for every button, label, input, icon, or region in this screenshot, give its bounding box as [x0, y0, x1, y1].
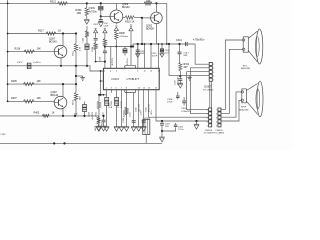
svg-text:4.7K: 4.7K: [80, 46, 82, 51]
node jog x133: [132, 45, 134, 47]
transistor Q302: [151, 12, 163, 24]
wire IC pin up x151: [150, 44, 152, 68]
resistor R301 in rail: [144, 2, 152, 5]
wire pin1 stub: [104, 62, 106, 69]
resistor R408 down: [98, 116, 100, 117]
node x100.5 y71: [100, 70, 102, 72]
wire line y84.1: [8, 83, 76, 85]
svg-text:2: 2: [104, 71, 105, 73]
node x196.5 y121: [195, 120, 197, 122]
net arrow R308 chain: [115, 23, 117, 25]
svg-text:11: 11: [144, 71, 146, 73]
node x99 y94.8: [98, 94, 100, 96]
wire pin7 chain: [121, 93, 123, 128]
node emitter line Q403: [62, 115, 64, 117]
svg-text:C301: C301: [118, 103, 120, 108]
node bus x169: [168, 43, 170, 45]
svg-text:4u7/50v: 4u7/50v: [89, 11, 98, 13]
wire CN307-CN303 link B: [210, 82, 212, 108]
svg-text:F306: F306: [123, 118, 125, 122]
svg-text:B(4Ω,5W): B(4Ω,5W): [239, 110, 248, 112]
resistor R306: [86, 3, 88, 7]
svg-text:2: 2: [216, 113, 217, 115]
ground below R408: [96, 125, 101, 127]
wire bottom line y143.4: [0, 142, 162, 144]
svg-text:1OO: 1OO: [103, 111, 105, 116]
node pin1 jog: [104, 61, 106, 63]
svg-text:8: 8: [126, 88, 127, 90]
svg-text:4u7/5Ov: 4u7/5Ov: [123, 110, 125, 117]
capacitor C314 series: [184, 42, 186, 46]
svg-text:BD908: BD908: [146, 28, 154, 31]
svg-text:R402: R402: [34, 112, 40, 115]
svg-text:SP-R: SP-R: [241, 107, 247, 109]
svg-text:C3O9: C3O9: [89, 7, 96, 10]
node rail y65.8: [7, 65, 9, 67]
node bus x144.5: [144, 43, 146, 45]
node emitter line x87: [86, 65, 88, 67]
capacitor C307: [27, 63, 31, 69]
resistor F306 chain: [126, 93, 128, 128]
svg-text:C318: C318: [167, 99, 173, 101]
node base junction Q308: [100, 15, 102, 17]
speaker SP-R: [242, 89, 247, 103]
node rail-R306 junction: [86, 2, 88, 4]
svg-text:4: 4: [216, 121, 217, 123]
svg-text:12: 12: [143, 88, 145, 90]
capacitor C301: [116, 93, 118, 128]
capacitor C322: [174, 124, 178, 126]
resistor R410: [74, 93, 77, 101]
wire SP-R minus: [221, 100, 241, 121]
svg-text:1OOP: 1OOP: [152, 55, 158, 57]
node x180.3 y76: [179, 75, 181, 77]
wire stub to pin4 CN307: [169, 75, 209, 77]
svg-text:1: 1: [207, 109, 208, 111]
svg-text:TO CN302: TO CN302: [203, 90, 214, 92]
wire bus y44: [133, 43, 195, 45]
wire jog to IC pin1: [96, 61, 105, 63]
svg-text:C3Z1: C3Z1: [165, 124, 171, 126]
svg-text:UTC8L377: UTC8L377: [127, 77, 140, 81]
svg-text:4u7/5Ov: 4u7/5Ov: [127, 58, 129, 65]
node top-left rail junction: [7, 3, 9, 5]
net arrow col A: [94, 29, 98, 32]
svg-text:4.7Bu/9Ov: 4.7Bu/9Ov: [193, 39, 205, 42]
capacitor C310 to ground: [100, 16, 102, 19]
svg-text:1OO: 1OO: [165, 52, 169, 54]
ground bars near Q307: [81, 77, 85, 79]
IC bottom pin stubs: [106, 90, 108, 93]
wire top supply rail: [0, 2, 167, 4]
resistor R407: [23, 100, 34, 103]
svg-text:10R: 10R: [146, 0, 151, 3]
net arrow col B: [103, 29, 107, 32]
svg-text:L203: L203: [1, 134, 7, 136]
svg-text:C3O5: C3O5: [93, 24, 98, 26]
capacitor C306 chain: [86, 50, 88, 66]
svg-text:1: 1: [213, 64, 214, 66]
svg-text:BD140: BD140: [51, 94, 59, 97]
node bus x151: [150, 43, 152, 45]
svg-text:9: 9: [137, 71, 138, 73]
capacitor C321: [161, 121, 163, 123]
svg-text:1OO: 1OO: [165, 126, 170, 128]
svg-text:4u7/50V: 4u7/50V: [92, 111, 94, 119]
svg-text:R310 1K: R310 1K: [125, 20, 135, 23]
svg-text:47Ou: 47Ou: [151, 110, 153, 115]
capacitor C311 to ground: [137, 44, 139, 50]
resistor R319: [179, 63, 182, 72]
wire R319 to dot: [179, 71, 181, 76]
svg-text:16: 16: [155, 88, 157, 90]
wire SP-L minus: [221, 49, 242, 113]
component HP301 box: [143, 120, 150, 135]
resistor R310: [123, 17, 125, 19]
svg-text:5: 5: [116, 88, 117, 90]
node bus x167: [166, 43, 168, 45]
node x162 y121: [161, 120, 163, 122]
node collector Q307: [62, 32, 64, 34]
wire CN307 pin3 feed: [187, 71, 210, 73]
node collector Q403: [62, 83, 64, 85]
capacitor C303 chain: [143, 93, 145, 128]
wire pin14 L-route: [149, 93, 209, 118]
svg-text:10R: 10R: [77, 12, 82, 15]
svg-text:470u/16V: 470u/16V: [178, 76, 180, 85]
node R310-base net: [141, 17, 143, 19]
wire x179.5 down: [179, 44, 181, 52]
node bus x142: [141, 43, 143, 45]
wire IC pin up x158.4: [157, 44, 159, 68]
svg-text:C3O7: C3O7: [140, 110, 142, 115]
wire left rail vertical: [7, 0, 9, 101]
svg-text:C303: C303: [145, 107, 147, 112]
resistor R317: [46, 32, 56, 35]
speaker SP-L: [243, 37, 248, 52]
node rail-Q302 collector: [155, 2, 157, 4]
node R311 top: [75, 32, 77, 34]
resistor R322: [98, 95, 100, 101]
svg-text:2: 2: [213, 68, 214, 70]
capacitor col B lower: [104, 48, 106, 51]
capacitor below dot: [179, 76, 181, 79]
svg-text:TO CN8O5: TO CN8O5: [214, 133, 225, 135]
resistor R308: [115, 30, 117, 33]
node emitter line Q307: [60, 65, 62, 67]
svg-text:SP-L: SP-L: [243, 65, 249, 67]
wire SP-L plus: [221, 40, 242, 110]
resistor R311: [74, 44, 77, 52]
node col B segment: [104, 45, 106, 47]
node bus x179: [178, 43, 180, 45]
svg-text:CN307: CN307: [204, 87, 212, 89]
ground arrow bottom: [159, 136, 164, 138]
IC U301 body: [103, 68, 159, 89]
wire x131 arrow to segment: [130, 31, 132, 47]
svg-text:BD140: BD140: [49, 41, 57, 44]
svg-text:3: 3: [216, 117, 217, 119]
svg-text:1OuF: 1OuF: [167, 102, 173, 104]
svg-text:4R7: 4R7: [184, 67, 189, 69]
net arrow x131: [129, 27, 133, 30]
svg-text:BD140: BD140: [122, 6, 130, 9]
node bus x137.7: [137, 43, 139, 45]
svg-text:13: 13: [150, 71, 152, 73]
resistor R321: [58, 2, 68, 5]
svg-text:C3O7: C3O7: [17, 62, 23, 64]
node x162 y131: [161, 130, 163, 132]
wire box to bottom line: [145, 135, 147, 144]
wire x169 down: [168, 44, 170, 76]
node x100.5 y94.8: [99, 94, 101, 96]
node rail y33.5: [7, 33, 9, 35]
capacitor C302 chain: [133, 93, 135, 128]
svg-text:TO CN8O3: TO CN8O3: [204, 133, 215, 135]
svg-text:R319: R319: [184, 64, 190, 66]
svg-text:R316: R316: [15, 47, 21, 50]
svg-text:CN3O3: CN3O3: [205, 130, 213, 132]
node x100.5 y81: [100, 80, 102, 82]
svg-text:C322: C322: [178, 127, 184, 129]
svg-text:1: 1: [216, 109, 217, 111]
wire CN307-CN303 link A: [209, 82, 211, 108]
svg-text:R405: R405: [11, 80, 17, 83]
svg-text:56P: 56P: [184, 55, 188, 57]
wire emitter line y65.8: [8, 66, 104, 71]
wire bus jog y46.5: [105, 46, 133, 48]
svg-text:C3O3: C3O3: [103, 26, 108, 28]
wire mid rail x76: [75, 34, 77, 44]
wire line y51.6 base Q307: [8, 51, 55, 53]
wire line y33.5: [8, 33, 76, 35]
svg-text:R317: R317: [38, 29, 44, 32]
svg-text:1: 1: [106, 88, 107, 90]
svg-text:14: 14: [148, 88, 150, 90]
svg-text:10K: 10K: [37, 47, 42, 50]
capacitor C316 box to ground: [161, 44, 163, 49]
connector CN403: [218, 108, 221, 111]
svg-text:3: 3: [207, 117, 208, 119]
wire IC pin up x144.5: [144, 44, 146, 68]
wire Q307 emitter: [60, 58, 62, 66]
capacitor C312 below segment: [124, 47, 126, 49]
svg-text:4.7Kohm: 4.7Kohm: [119, 36, 128, 38]
svg-text:4u7/5OV: 4u7/5OV: [112, 57, 114, 65]
node emitter line x84.5: [83, 115, 85, 117]
connector CN303: [209, 108, 212, 111]
wire under-IC link: [98, 94, 107, 96]
wire Q302 collector: [155, 3, 157, 12]
connector CN307: [209, 62, 212, 65]
svg-text:2: 2: [207, 113, 208, 115]
capacitor C406: [84, 112, 86, 116]
node bottom x54.2: [53, 142, 55, 144]
svg-text:C314: C314: [176, 39, 182, 42]
wire bus to CN307 pin1: [195, 44, 209, 64]
svg-text:1K: 1K: [52, 112, 55, 115]
IC top tab: [125, 65, 136, 68]
wire line y101.3 base Q403: [8, 100, 55, 102]
wire collector Q308 to rail: [115, 3, 117, 10]
resistor R405: [23, 82, 34, 85]
svg-text:C3O4: C3O4: [99, 57, 101, 62]
svg-text:4u7/50V: 4u7/50V: [111, 100, 113, 108]
svg-text:15: 15: [158, 71, 160, 73]
node rail-C309 junction: [100, 2, 102, 4]
node x103.4 y94.8: [103, 94, 105, 96]
resistor R402: [42, 114, 49, 117]
svg-text:10K: 10K: [37, 97, 42, 100]
node emitter line x75: [74, 115, 76, 117]
IC bottom tab: [125, 90, 136, 93]
node bus x162: [161, 43, 163, 45]
svg-text:3: 3: [213, 72, 214, 74]
node rail y101.3: [7, 100, 9, 102]
svg-text:C302: C302: [135, 107, 137, 112]
node R308 segment: [115, 46, 117, 48]
capacitor C317: [178, 51, 182, 53]
wire base Q308: [101, 15, 110, 17]
svg-text:IC3O1: IC3O1: [112, 77, 120, 81]
svg-text:4: 4: [207, 121, 208, 123]
svg-text:R308: R308: [119, 33, 125, 35]
svg-text:4: 4: [213, 76, 214, 78]
capacitor C318: [177, 92, 179, 96]
svg-text:B(4Ω,5W): B(4Ω,5W): [241, 68, 250, 70]
svg-text:C304: C304: [108, 103, 110, 108]
node bottom x64.5: [63, 142, 65, 144]
capacitor C304: [106, 93, 108, 128]
svg-text:6: 6: [116, 71, 117, 73]
resistor col B chain: [104, 33, 106, 39]
svg-text:5: 5: [216, 125, 217, 127]
ground arrow x180.3: [178, 82, 183, 84]
svg-text:1u/5Ou: 1u/5Ou: [33, 62, 41, 64]
wire SP-R plus: [221, 92, 241, 117]
transistor Q308: [110, 10, 123, 23]
svg-text:5: 5: [207, 125, 208, 127]
ground bars x189.5: [189, 76, 191, 78]
svg-text:R322: R322: [96, 112, 98, 117]
wire Q302 emitter: [155, 24, 157, 44]
capacitor C309: [100, 3, 102, 6]
wire net down from base node: [141, 18, 143, 44]
resistor R316: [24, 50, 35, 53]
wire Q403 emitter: [62, 109, 64, 116]
ground arrow x196.5: [196, 121, 198, 124]
wire emitter line y115.9: [0, 115, 99, 117]
wire pin16 L-route: [156, 93, 209, 121]
wire col C to pin: [110, 47, 112, 69]
node mid rail y76: [75, 75, 77, 77]
wire stub to bar ground: [76, 75, 83, 77]
svg-text:1K: 1K: [58, 29, 61, 32]
svg-text:10K: 10K: [37, 80, 42, 83]
svg-text:1OOu: 1OOu: [130, 112, 132, 117]
svg-text:R304: R304: [92, 47, 94, 52]
svg-text:3: 3: [111, 88, 112, 90]
ground below R306: [84, 18, 89, 20]
wire x100.5 vertical: [100, 71, 102, 95]
transistor Q307: [54, 45, 67, 58]
svg-text:4: 4: [110, 71, 111, 73]
svg-text:1OOu: 1OOu: [178, 129, 183, 131]
wire Q307 collector: [62, 34, 64, 47]
wire CN307 pin2 feed: [190, 67, 209, 69]
wire Q403 collector: [62, 84, 64, 97]
IC left pin stub: [101, 80, 104, 82]
wire x131 to tab: [130, 47, 132, 66]
node mid rail y65.8: [75, 65, 77, 67]
wire node to ground: [161, 131, 163, 137]
svg-text:5: 5: [213, 80, 214, 82]
svg-text:10: 10: [138, 88, 140, 90]
node rail y84.1: [7, 83, 9, 85]
node rail y51.6: [7, 51, 9, 53]
node x131 y46.5: [130, 45, 132, 47]
wire rail corner down: [166, 3, 168, 44]
capacitor C320: [183, 97, 185, 101]
wire pin10 chain: [138, 93, 140, 128]
node emitter line x103.5: [102, 115, 104, 117]
svg-text:R407: R407: [11, 97, 17, 100]
capacitor C410 to ground: [103, 116, 105, 120]
wire IC pin up x137.9: [137, 44, 139, 68]
node bus x158.4: [158, 43, 160, 45]
svg-text:R321: R321: [50, 1, 57, 4]
node mid rail y84.1: [75, 83, 77, 85]
svg-text:HP3O1: HP3O1: [144, 118, 152, 120]
wire node right jog: [162, 127, 176, 131]
transistor Q403: [54, 96, 67, 109]
wire Q302 base: [142, 17, 151, 19]
resistor col A chain: [95, 33, 97, 38]
svg-text:CN4O3: CN4O3: [215, 130, 223, 132]
svg-text:C306: C306: [83, 38, 85, 43]
svg-text:7: 7: [121, 88, 122, 90]
